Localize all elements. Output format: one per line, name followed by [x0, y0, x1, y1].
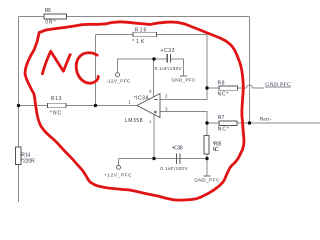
red letter N	[42, 51, 70, 74]
junction node inverting	[205, 86, 208, 89]
capacitor C32 plates	[167, 54, 170, 62]
junction node R15-bottom	[205, 157, 208, 160]
wire op-amp pin4	[153, 115, 155, 159]
wire R8 to GND PFC label	[253, 87, 265, 89]
red letter C	[76, 53, 98, 83]
wire Rect- net	[207, 122, 320, 124]
resistor R14	[15, 147, 20, 165]
wire R8 net	[207, 87, 246, 89]
resistor R8	[219, 86, 237, 90]
svg-text:+C32: +C32	[161, 48, 175, 54]
svg-text:R8: R8	[218, 80, 225, 86]
resistor R7	[219, 121, 237, 126]
svg-text:0R*: 0R*	[45, 20, 55, 26]
underline GND PFC right	[265, 86, 291, 88]
junction node Rect-	[248, 121, 251, 124]
op-amp plus marker	[154, 111, 157, 114]
wire C32 right to ground	[171, 59, 184, 76]
resistor R16	[133, 32, 157, 37]
junction node output-left	[17, 104, 20, 107]
svg-text:*IC3A: *IC3A	[134, 95, 150, 101]
svg-text:*NC: *NC	[50, 110, 62, 116]
svg-text:LM358: LM358	[125, 118, 143, 124]
wire R16 horizontal	[96, 34, 208, 36]
svg-text:*1K: *1K	[132, 39, 145, 45]
svg-text:NC*: NC*	[218, 92, 229, 98]
wire R16 left vertical	[95, 35, 97, 106]
wire -12V stub	[118, 59, 168, 73]
wire hop over vertical	[247, 85, 253, 88]
junction node non-inverting	[205, 121, 208, 124]
wire non-inverting input	[160, 112, 207, 124]
svg-text:+12V_PFC: +12V_PFC	[104, 172, 132, 177]
junction node pin4-bottom	[152, 157, 155, 160]
resistor R9	[44, 14, 67, 19]
svg-text:R9: R9	[45, 8, 51, 14]
wire inverting input vertical	[160, 35, 207, 100]
op-amp minus marker	[154, 99, 158, 101]
wire bottom net	[119, 158, 208, 160]
svg-text:R16: R16	[135, 27, 147, 33]
svg-text:NC*: NC*	[218, 126, 229, 132]
resistor R13	[48, 103, 67, 108]
svg-text:-12V_PFC: -12V_PFC	[106, 79, 131, 84]
op-amp U IC3A triangle	[137, 94, 160, 118]
svg-text:GND_PFC: GND_PFC	[194, 178, 220, 183]
wire left vertical	[18, 17, 20, 203]
ground GND_PFC bar top	[180, 75, 187, 77]
wire op-amp pin8	[153, 59, 155, 97]
svg-text:0.1uF/100V: 0.1uF/100V	[155, 66, 183, 71]
terminal +12V_PFC circle	[117, 165, 121, 169]
svg-text:*220R: *220R	[21, 158, 35, 164]
svg-text:0.1uF/100V: 0.1uF/100V	[160, 166, 188, 171]
wire ground stub bottom	[206, 159, 208, 176]
resistor R15	[204, 136, 209, 154]
svg-text:Rect-: Rect-	[260, 117, 272, 123]
capacitor C38 plates	[177, 154, 180, 165]
svg-text:R7: R7	[218, 115, 225, 121]
terminal -12V_PFC circle	[116, 73, 120, 77]
wire top net	[19, 16, 250, 18]
junction node feedback-output	[94, 104, 97, 107]
svg-text:+C38: +C38	[172, 146, 183, 152]
red annotation loop	[25, 22, 244, 200]
svg-text:R13: R13	[51, 96, 62, 102]
svg-text:GND_PFC: GND_PFC	[171, 77, 196, 82]
junction node -12V rail	[152, 57, 155, 60]
wire output net y=105.5	[19, 105, 138, 107]
svg-text:NC: NC	[213, 147, 219, 153]
ground GND_PFC bar bottom	[203, 175, 210, 177]
wire +12V stub	[118, 159, 120, 166]
wire R15 vertical	[206, 123, 208, 159]
wire right vertical	[249, 17, 251, 124]
